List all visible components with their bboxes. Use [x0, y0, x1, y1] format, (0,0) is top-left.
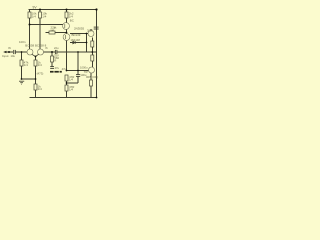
capacitor C2 feedback [55, 50, 57, 54]
svg-text:1/4: 1/4 [38, 87, 42, 91]
svg-text:(473): (473) [37, 72, 44, 76]
node input terminal [8, 51, 10, 53]
svg-text:BC558 BC558 8: BC558 BC558 8 [25, 43, 46, 47]
node QA emitter [66, 32, 68, 34]
node x78 top [77, 51, 79, 53]
svg-text:47u: 47u [62, 67, 67, 71]
wire y79 [22, 78, 36, 80]
resistor R emitter upper [91, 41, 94, 47]
node Q3 base [86, 33, 88, 35]
wire Q4 collector leads [90, 73, 92, 80]
resistor R VAS horizontal [49, 31, 55, 34]
node bootstrap cap [77, 70, 79, 72]
wire Q3 collector stub [90, 29, 92, 31]
diode D1 [73, 41, 76, 44]
node output emitters [91, 51, 93, 53]
wire y83 [67, 82, 79, 84]
wire bias resistor leads [21, 52, 23, 60]
svg-text:10u: 10u [11, 54, 16, 58]
svg-text:1/4: 1/4 [32, 14, 36, 18]
wire Q2 emitter [36, 54, 39, 56]
svg-text:1/4: 1/4 [69, 78, 73, 82]
wire right rail [96, 10, 98, 98]
wire x86.5 [86, 34, 88, 53]
resistor R bootstrap upper [65, 75, 68, 81]
wire y33.5 to Q3 base [70, 33, 88, 35]
capacitor C5 rail top right [94, 27, 99, 29]
wire R1 leads [29, 10, 31, 13]
wire bottom rail [30, 97, 97, 99]
wire feedback divider x52 [51, 52, 53, 56]
transistor Q4 output lower [89, 67, 95, 73]
transistor Q1 diff left [27, 49, 33, 55]
svg-text:3055: 3055 [87, 28, 93, 32]
capacitor C1 input [14, 50, 16, 54]
node output left [66, 70, 68, 72]
node diode join [86, 42, 88, 44]
svg-text:1/4: 1/4 [69, 88, 73, 92]
resistor R emitter lower [91, 55, 94, 61]
svg-text:1N4148: 1N4148 [71, 38, 81, 42]
resistor R bootstrap lower [65, 85, 68, 91]
transistor Q3 output upper [88, 31, 94, 37]
resistor R2 [39, 12, 42, 18]
wire R2 leads [39, 10, 41, 13]
capacitor C4 bootstrap [76, 75, 80, 77]
resistor R tail [34, 60, 37, 66]
svg-text:R: R [54, 59, 56, 63]
svg-text:Input: Input [2, 54, 9, 58]
wire diff emitters tail [35, 57, 37, 61]
svg-text:1/4: 1/4 [42, 14, 46, 18]
svg-text:22u: 22u [54, 46, 59, 50]
resistor R feedback [51, 56, 54, 62]
svg-text:BC: BC [70, 18, 74, 22]
node dots [8, 8, 98, 98]
transistor QB driver [63, 34, 70, 41]
wire QA emitter [66, 29, 68, 33]
node input base [21, 51, 23, 53]
capacitor C3 feedback ground [50, 67, 54, 69]
node ground left [21, 78, 23, 80]
wire QB collector-emitter column [66, 40, 68, 70]
resistor R3 [65, 12, 68, 18]
wire bootstrap R leads x66.5 [66, 81, 68, 85]
label output dark row [50, 71, 62, 73]
ground symbol [19, 81, 24, 84]
transistor Q2 diff right [38, 49, 44, 55]
wire Q2 base / feedback row y52 [44, 51, 56, 53]
node bottom right [96, 97, 98, 99]
resistor R1 [28, 12, 31, 18]
svg-text:1/4: 1/4 [38, 63, 42, 67]
svg-text:BD139: BD139 [72, 33, 81, 37]
wire R3 leads [66, 10, 68, 13]
node top R3 [66, 9, 68, 11]
node feedback [51, 51, 53, 53]
svg-text:1/4: 1/4 [24, 63, 28, 67]
resistor R lower tail [34, 84, 37, 90]
resistor R collector lower [90, 80, 93, 86]
wire rail2 [30, 24, 63, 26]
wire after input cap [15, 51, 27, 53]
wire top rail +V [29, 9, 97, 11]
wire Q4 emitter resistor leads [91, 52, 93, 55]
node top right [95, 8, 97, 10]
svg-text:47u: 47u [55, 66, 60, 70]
node tail y79 [35, 78, 37, 80]
wire input arrow [5, 51, 14, 53]
wire output row y70.5 [67, 70, 89, 72]
wire x78 column [77, 52, 79, 74]
node top R2 [39, 9, 41, 11]
svg-text:100u: 100u [80, 73, 86, 77]
svg-text:1000u: 1000u [80, 65, 88, 69]
wire Q1 emitter [32, 54, 36, 56]
svg-text:0R5 (OK): 0R5 (OK) [86, 75, 98, 79]
input arrow head [3, 51, 6, 54]
wire Q3 emitter resistor leads [91, 38, 93, 42]
wire diode row [70, 42, 73, 44]
node bootstrap mid [66, 82, 68, 84]
node diff emitters [35, 56, 37, 58]
wire VAS bias y32.5 [46, 32, 50, 34]
transistor QA [63, 23, 70, 30]
svg-text:2N3055: 2N3055 [74, 27, 85, 31]
node rail2 left [29, 24, 31, 26]
resistor R bias [20, 60, 23, 66]
svg-text:IN: IN [8, 46, 11, 50]
